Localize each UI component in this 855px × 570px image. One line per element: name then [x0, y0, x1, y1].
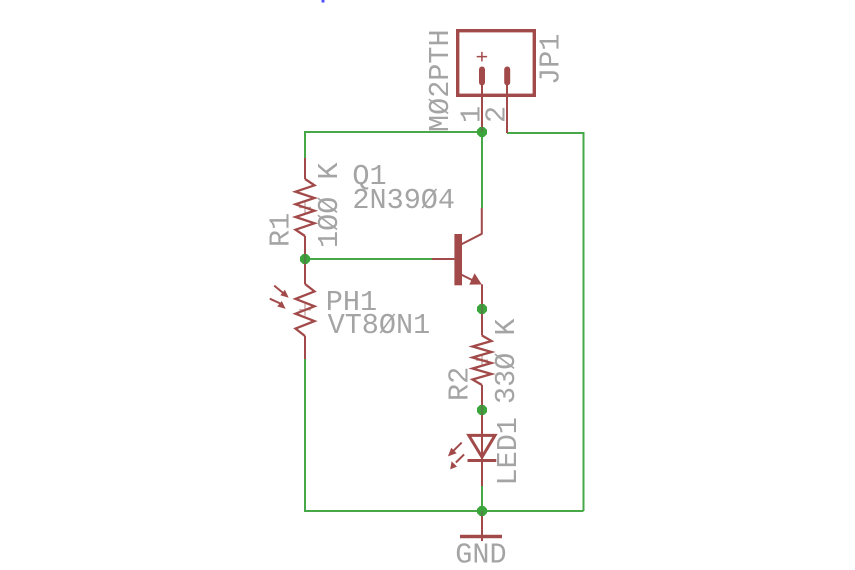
- svg-text:R2: R2: [444, 367, 477, 401]
- origin marker dot: [322, 0, 325, 3]
- transistor Q1 emitter lead: [481, 284, 483, 309]
- svg-text:2: 2: [481, 106, 514, 123]
- transistor Q1 base lead: [432, 258, 454, 260]
- transistor Q1 collector diagonal: [461, 234, 482, 245]
- LED1 triangle: [469, 435, 495, 457]
- LED1 bottom lead: [481, 461, 483, 487]
- photoresistor PH1 light arrow 2: [270, 299, 286, 309]
- wire left vertical top: [304, 131, 306, 158]
- resistor R2 top lead: [481, 309, 483, 336]
- resistor R2 zigzag: [473, 336, 492, 386]
- svg-text:JP1: JP1: [534, 34, 567, 85]
- ground symbol bar: [460, 535, 502, 538]
- wire left vertical bottom: [304, 359, 306, 512]
- JP1 pin 1 lead: [481, 84, 483, 132]
- resistor R1 bottom lead: [304, 236, 306, 259]
- svg-text:GND: GND: [455, 539, 506, 570]
- transistor Q1 emitter arrow: [469, 273, 482, 284]
- wire VCC top-left horizontal: [305, 131, 482, 133]
- LED1 light arrow 2: [450, 454, 464, 469]
- resistor R1 zigzag: [296, 179, 315, 236]
- origin cross R2: [476, 354, 488, 366]
- resistor R1 top lead: [304, 158, 306, 179]
- photoresistor PH1 zigzag: [296, 284, 315, 336]
- LED1 top lead: [481, 410, 483, 461]
- svg-text:2N39Ø4: 2N39Ø4: [352, 184, 455, 217]
- JP1 pin 2 pad: [504, 67, 510, 86]
- wire LED to GND net: [481, 486, 483, 511]
- photoresistor PH1 light arrow 1: [274, 286, 289, 298]
- wire right vertical: [583, 132, 585, 511]
- junction dot base: [300, 254, 310, 264]
- svg-text:1ØØ K: 1ØØ K: [313, 162, 346, 248]
- origin cross PH1: [299, 304, 311, 316]
- JP1 plus mark: [477, 52, 487, 62]
- transistor Q1 emitter diagonal: [461, 275, 473, 281]
- wire collector net: [481, 132, 483, 208]
- wire bottom horizontal: [305, 510, 584, 512]
- svg-text:VT8ØN1: VT8ØN1: [328, 309, 431, 342]
- photoresistor PH1 top lead: [304, 259, 306, 284]
- junction dot VCC: [477, 127, 487, 137]
- resistor R2 bottom lead: [481, 385, 483, 410]
- LED1 light arrow 1: [448, 443, 462, 457]
- ground symbol stem: [481, 512, 483, 541]
- svg-text:33Ø K: 33Ø K: [490, 318, 523, 404]
- junction dot emitter: [477, 304, 487, 314]
- wire base net: [305, 258, 432, 260]
- junction dot R2-LED: [477, 405, 487, 415]
- LED1 cathode bar: [468, 459, 497, 462]
- svg-text:MØ2PTH: MØ2PTH: [424, 29, 457, 132]
- JP1 pin 2 lead: [506, 84, 508, 133]
- photoresistor PH1 bottom lead: [304, 336, 306, 359]
- transistor Q1 base bar: [454, 234, 462, 285]
- JP1 pin 1 pad: [479, 67, 485, 86]
- wire VCC top-right horizontal: [507, 132, 584, 134]
- junction dot GND: [477, 506, 487, 516]
- connector JP1 body: [458, 31, 535, 96]
- svg-text:R1: R1: [265, 213, 298, 247]
- origin cross R1: [299, 202, 311, 214]
- svg-text:LED1: LED1: [492, 417, 525, 485]
- transistor Q1 collector lead: [481, 208, 483, 235]
